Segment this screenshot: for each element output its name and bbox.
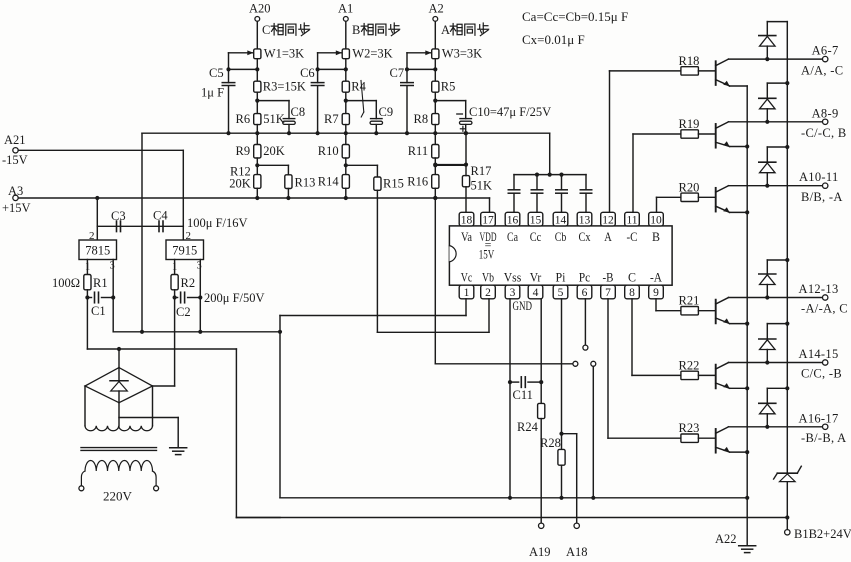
wire pin12 to R18 [609, 71, 611, 212]
resistor R17 [464, 163, 468, 167]
resistor R6 [254, 114, 261, 125]
svg-text:5: 5 [558, 287, 564, 299]
capacitor C11 [510, 381, 519, 383]
resistor R15 [376, 165, 378, 177]
svg-text:R11: R11 [408, 144, 428, 158]
svg-text:R3=15K: R3=15K [263, 80, 306, 94]
svg-text:R15: R15 [383, 177, 404, 191]
pin 17 box [481, 212, 496, 226]
diode D5 [759, 338, 776, 340]
label C10 plus [460, 128, 465, 130]
wire branch to C8 [257, 100, 289, 102]
svg-text:-C/-C, B: -C/-C, B [801, 126, 846, 140]
svg-text:A: A [604, 230, 612, 244]
svg-text:Vr: Vr [530, 271, 542, 285]
capacitor Cc [536, 175, 538, 190]
wire rail A (7815 pin3 to right) [113, 331, 280, 333]
svg-text:6: 6 [582, 287, 588, 299]
wire pin10 to R20 [656, 197, 658, 212]
wire +15V rail corner to pin17 [489, 198, 491, 212]
switch contact left [573, 361, 578, 366]
wire rail B down to rail2 [235, 349, 237, 518]
wire bridge left to secondary [84, 386, 86, 426]
transistor Q2 [715, 124, 717, 148]
svg-text:R1: R1 [93, 276, 108, 290]
svg-text:B1B2+24V: B1B2+24V [794, 527, 851, 541]
svg-text:-15V: -15V [2, 153, 28, 167]
svg-text:A12-13: A12-13 [799, 282, 839, 296]
wire branch to R13 [257, 164, 288, 166]
wire R3 to R6 [256, 92, 258, 113]
svg-text:3: 3 [110, 261, 115, 272]
svg-text:C8: C8 [291, 105, 306, 119]
transformer core [81, 447, 157, 449]
wire D2 anode to row [766, 109, 768, 122]
wire pin7 -B to R23 [607, 299, 609, 438]
wire Vc line down to rail1 [279, 316, 281, 498]
pin 12 box [601, 212, 616, 226]
svg-text:R10: R10 [318, 144, 339, 158]
wire R17 to pin18 [465, 187, 467, 213]
op-amp U1 IC body [449, 226, 672, 285]
wire R12 to +15V rail [256, 188, 258, 198]
svg-text:R23: R23 [679, 421, 700, 435]
svg-text:A/A, -C: A/A, -C [801, 63, 843, 77]
svg-text:R5: R5 [441, 80, 456, 94]
wire primary left lead [81, 471, 85, 486]
zener diode VZ [777, 472, 797, 474]
ground A22 [739, 545, 756, 547]
pin 15 box [528, 212, 543, 226]
svg-text:R21: R21 [679, 294, 700, 308]
svg-text:220V: 220V [103, 489, 133, 504]
wire pin5 Pi down [561, 299, 563, 450]
svg-text:C7: C7 [390, 66, 405, 80]
pin 11 box [625, 212, 640, 226]
svg-text:A6-7: A6-7 [812, 44, 839, 58]
svg-text:R19: R19 [679, 117, 700, 131]
wire C8 to rail [288, 125, 290, 134]
svg-text:R20: R20 [679, 180, 700, 194]
capacitor C9 (electrolytic) [371, 118, 383, 120]
svg-text:-A/-A, C: -A/-A, C [801, 302, 848, 316]
wire pin11 to R19 [632, 134, 634, 212]
svg-text:W1=3K: W1=3K [264, 47, 304, 61]
rectifier bridge D1 diamond [85, 368, 153, 403]
svg-text:Vb: Vb [482, 271, 494, 285]
svg-text:C11: C11 [513, 388, 533, 402]
wire W1 to R3 [256, 59, 258, 81]
resistor R22 [681, 371, 699, 379]
svg-text:A20: A20 [249, 2, 271, 16]
wire R9 to R12 [256, 158, 258, 175]
resistor R4 [342, 81, 349, 92]
svg-text:C5: C5 [209, 66, 224, 80]
wire emitter to rail [730, 323, 748, 325]
resistor R7 [342, 114, 349, 125]
resistor R13 [287, 165, 289, 175]
svg-text:GND: GND [513, 299, 533, 313]
resistor R9 [254, 145, 261, 159]
capacitor C6 [311, 82, 324, 84]
svg-text:W2=3K: W2=3K [352, 47, 392, 61]
wire rail to R11 [434, 133, 436, 144]
svg-text:C/C, -B: C/C, -B [801, 367, 842, 381]
ground (transformer) [170, 447, 187, 449]
wire 7915 pin1 down [174, 260, 176, 275]
wire C6 to rail [317, 86, 319, 133]
svg-text:Cc: Cc [530, 230, 542, 244]
svg-text:7: 7 [605, 287, 611, 299]
resistor R21 [681, 307, 699, 315]
wire pin9 -A to R21 [655, 299, 657, 311]
wire bottom rail 2 [236, 517, 787, 519]
wire branch to A18 [562, 433, 577, 435]
svg-text:-A: -A [650, 271, 662, 285]
wire A21 line [18, 149, 183, 151]
svg-text:Va: Va [461, 230, 472, 244]
IC notch [449, 246, 456, 262]
svg-text:3: 3 [510, 287, 516, 299]
potentiometer W1 (W1=3K) [254, 49, 261, 59]
wire rail to R10 [345, 133, 347, 144]
svg-text:+15V: +15V [2, 201, 31, 215]
wire +15V to switch (from R16 column) [433, 196, 437, 200]
wire center tap to ground [119, 417, 178, 419]
svg-text:A16-17: A16-17 [799, 411, 839, 425]
pin 6 box [577, 285, 592, 299]
svg-text:C: C [262, 23, 270, 37]
wire 7815 pin1 down [86, 260, 88, 275]
wire D5 anode to row [766, 350, 768, 363]
wire pin2 Vb line [488, 299, 490, 333]
svg-text:2: 2 [485, 287, 491, 299]
pin 8 box [625, 285, 640, 299]
svg-text:A10-11: A10-11 [799, 170, 839, 184]
wire +15V rail [18, 197, 489, 199]
pin 13 box [577, 212, 592, 226]
wire R4 to R7 [345, 92, 347, 113]
resistor R10 [342, 145, 349, 159]
wire main cap rail (y=133) [142, 132, 550, 134]
pin 9 box [649, 285, 664, 299]
diode D3 [759, 161, 776, 163]
svg-text:1μ F: 1μ F [201, 86, 224, 100]
capacitor C5 [222, 82, 235, 84]
svg-text:Cb: Cb [555, 230, 567, 244]
wire pin3 Vss down [509, 299, 511, 498]
wire +24V bus [786, 22, 788, 530]
wire pin8 C to R22 [631, 299, 633, 376]
wire R6 to rail [256, 125, 258, 134]
wiper arrow near R4 [361, 81, 364, 113]
svg-text:-C: -C [627, 230, 638, 244]
wire collector row A14-15 [729, 362, 823, 364]
svg-text:18: 18 [461, 214, 473, 226]
transistor Q4 [715, 300, 717, 324]
wire collector row A10-11 [729, 185, 823, 187]
svg-text:A21: A21 [4, 133, 26, 147]
wire R5 to R8 [434, 92, 436, 113]
pin 16 box [505, 212, 520, 226]
wire branch to C9 [346, 100, 377, 102]
wire A20 to W1 [256, 22, 258, 49]
svg-text:51K: 51K [263, 112, 285, 126]
transformer secondary winding [85, 426, 153, 431]
svg-text:A14-15: A14-15 [799, 347, 839, 361]
svg-text:Cx=0.01μ F: Cx=0.01μ F [522, 32, 585, 47]
wire wiper arrow into W2 [318, 52, 342, 54]
wire 7915 pin3 down [199, 260, 201, 332]
svg-text:A22: A22 [715, 532, 737, 546]
wire 7815 input from +15V [95, 196, 99, 200]
pin 7 box [601, 285, 616, 299]
wire A2 to W3 [434, 22, 436, 49]
capacitor C7 [401, 82, 414, 84]
wire W2 to R4 [345, 59, 347, 81]
wire collector row A12-13 [729, 297, 823, 299]
svg-text:20K: 20K [263, 144, 285, 158]
svg-text:4: 4 [533, 287, 539, 299]
svg-text:51K: 51K [471, 179, 493, 193]
wire A21 down to 7915 [182, 150, 184, 240]
svg-text:R16: R16 [407, 175, 428, 189]
wire rail to R9 [256, 133, 258, 144]
transistor Q3 [715, 188, 717, 212]
svg-text:Cx: Cx [579, 230, 592, 244]
bridge inner diode [118, 368, 120, 381]
svg-text:R9: R9 [236, 144, 251, 158]
wire R7 to rail [345, 125, 347, 134]
resistor R18 [681, 67, 699, 75]
wire rail B (C1 line) [87, 348, 236, 350]
wire D3 cathode link to bus [766, 147, 768, 162]
resistor R20 [681, 193, 699, 201]
wire wiper arrow into W1 [229, 52, 253, 54]
svg-text:R8: R8 [414, 112, 429, 126]
svg-text:Pc: Pc [579, 271, 591, 285]
wire R24 to A19 [540, 419, 542, 523]
resistor R1 [84, 275, 91, 290]
wire primary right lead [153, 471, 157, 486]
transistor Q5 [715, 365, 717, 389]
svg-text:A: A [441, 23, 450, 37]
svg-text:15V: 15V [479, 248, 495, 262]
svg-text:100Ω: 100Ω [52, 276, 80, 290]
wire emitter to rail [730, 451, 748, 453]
node primary left terminal [79, 486, 84, 491]
pin 10 box [649, 212, 664, 226]
svg-text:A18: A18 [566, 545, 588, 559]
wire R21 to base [698, 310, 715, 312]
wire C3-C4 line [97, 225, 183, 227]
pin 2 box [481, 285, 496, 299]
wire R20 to base [698, 196, 715, 198]
wire D2 cathode link to bus [766, 83, 768, 98]
wire pin6 Pc down [584, 299, 586, 345]
wire R18 to base [698, 70, 715, 72]
svg-text:11: 11 [626, 214, 637, 226]
capacitor C3 [116, 221, 118, 232]
wire wiper down to C7 [406, 53, 408, 83]
wire emitter rail [746, 86, 748, 546]
wire R22 to base [698, 374, 715, 376]
svg-text:C: C [628, 271, 636, 285]
resistor R14 [342, 175, 349, 189]
wire branch to R17 [435, 164, 466, 166]
svg-text:W3=3K: W3=3K [442, 47, 482, 61]
svg-text:R24: R24 [517, 420, 539, 434]
pin 4 box [528, 285, 543, 299]
wire D3 anode to row [766, 173, 768, 186]
wire R11 to R16 [434, 158, 436, 175]
resistor R5 [432, 81, 439, 92]
svg-text:R2: R2 [181, 276, 196, 290]
svg-text:100μ F/16V: 100μ F/16V [187, 216, 248, 230]
svg-text:C6: C6 [300, 66, 315, 80]
capacitor Cb [561, 175, 563, 190]
svg-text:17: 17 [482, 214, 494, 226]
wire D6 anode to row [766, 414, 768, 427]
node A18 terminal [574, 523, 579, 528]
resistor R12 [254, 175, 261, 189]
resistor R24 [538, 403, 545, 418]
resistor R8 [432, 114, 439, 125]
wire R1 to C1 node [86, 290, 88, 349]
wire bridge top feed [118, 349, 120, 368]
svg-text:Vss: Vss [504, 271, 522, 285]
wire bridge right to R2 line [153, 385, 175, 387]
node A6-7 terminal [823, 56, 828, 61]
svg-text:C2: C2 [176, 305, 191, 319]
wire R28 to rail1 [561, 465, 563, 498]
pin 1 box [459, 285, 474, 299]
capacitor C4 [158, 221, 160, 232]
svg-text:1: 1 [464, 287, 470, 299]
svg-text:C3: C3 [111, 209, 126, 223]
wire C10 to rail [465, 125, 467, 134]
wire pin1 Vc line [465, 299, 467, 316]
svg-text:14: 14 [555, 214, 567, 226]
wire pin4 Vr down [540, 299, 542, 404]
svg-text:A8-9: A8-9 [812, 106, 839, 120]
wire R16 to +15V rail [434, 188, 436, 198]
resistor R19 [681, 130, 699, 138]
svg-text:Vc: Vc [461, 271, 473, 285]
svg-text:7915: 7915 [172, 244, 197, 258]
pin 14 box [553, 212, 568, 226]
svg-text:200μ F/50V: 200μ F/50V [204, 291, 265, 305]
wire rail left corner down [141, 133, 143, 332]
switch contact (Pc) [583, 345, 588, 350]
resistor R11 [432, 145, 439, 159]
label C10 minus [457, 113, 463, 115]
wire D5 cathode link to bus [766, 324, 768, 339]
svg-text:20K: 20K [229, 177, 251, 191]
node B1B2+24V terminal [785, 530, 790, 535]
wire R17 top link [435, 164, 466, 166]
regulator U3 7915 [166, 240, 204, 260]
diode D1 [759, 35, 776, 37]
wire A1 to W2 [345, 22, 347, 49]
wire 7815 pin3 down [112, 260, 114, 332]
capacitor Cx [585, 175, 587, 190]
wire bridge bottom to center tap [118, 403, 120, 426]
wire D1 anode to row [766, 46, 768, 59]
capacitor C2 [175, 297, 178, 299]
svg-text:R6: R6 [236, 112, 251, 126]
pin 18 box [459, 212, 474, 226]
wire R19 to base [698, 133, 715, 135]
pin 5 box [553, 285, 568, 299]
wire wiper tap to column [407, 68, 435, 70]
svg-text:R13: R13 [295, 176, 316, 190]
transformer primary winding [85, 460, 153, 471]
svg-text:R7: R7 [324, 112, 339, 126]
wire D4 cathode link to bus [766, 260, 768, 274]
resistor R28 [558, 449, 565, 465]
svg-text:Ca: Ca [507, 230, 518, 244]
wire C9 to rail [375, 125, 377, 134]
node A8-9 terminal [823, 119, 828, 124]
svg-text:C4: C4 [153, 209, 168, 223]
potentiometer W2 (W2=3K) [342, 49, 349, 59]
wire R2 down to bridge [174, 290, 176, 386]
svg-text:R22: R22 [679, 358, 700, 372]
svg-text:10: 10 [650, 214, 662, 226]
svg-text:R28: R28 [540, 436, 561, 450]
svg-text:B/B, -A: B/B, -A [801, 190, 843, 204]
potentiometer W3 (W3=3K) [432, 49, 439, 59]
svg-text:8: 8 [629, 287, 635, 299]
svg-text:A2: A2 [429, 2, 444, 16]
svg-text:R4: R4 [351, 80, 366, 94]
resistor R2 [171, 275, 178, 290]
regulator U2 7815 [79, 240, 117, 260]
svg-text:12: 12 [602, 214, 614, 226]
svg-text:-B/-B, A: -B/-B, A [801, 431, 846, 445]
wire top loop [766, 22, 768, 36]
svg-text:-B: -B [603, 271, 614, 285]
node A19 terminal [539, 523, 544, 528]
svg-text:7815: 7815 [85, 244, 110, 258]
wire R14 to +15V rail [345, 188, 347, 198]
svg-text:15: 15 [530, 214, 542, 226]
svg-text:B: B [352, 23, 360, 37]
wire R23 to base [698, 437, 715, 439]
resistor R3 [254, 81, 261, 92]
svg-text:A19: A19 [529, 545, 551, 559]
diode D4 [759, 273, 776, 275]
wire W3 to R5 [434, 59, 436, 81]
pin 3 box [505, 285, 520, 299]
wire rail corner down to cap bank [549, 133, 551, 174]
svg-text:B: B [652, 230, 660, 244]
svg-text:9: 9 [653, 287, 659, 299]
wire wiper tap to column [318, 68, 346, 70]
wire wiper tap to column [229, 68, 258, 70]
wire collector row A8-9 [729, 121, 823, 123]
svg-text:16: 16 [507, 214, 519, 226]
wire emitter to rail [730, 146, 748, 148]
wire R10 to R14 [345, 158, 347, 175]
wire wiper arrow into W3 [407, 52, 431, 54]
svg-text:Ca=Cc=Cb=0.15μ F: Ca=Cc=Cb=0.15μ F [522, 9, 628, 24]
wire switch right down to rail1 [592, 367, 594, 498]
wire C7 to rail [406, 86, 408, 133]
wire bridge right to secondary [152, 386, 154, 426]
wire emitter to rail [730, 387, 748, 389]
